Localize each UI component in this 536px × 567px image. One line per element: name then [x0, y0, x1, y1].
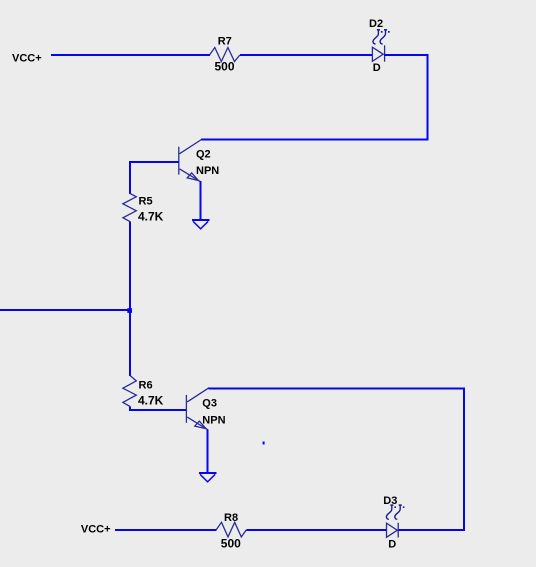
- wire Q2 base to R5: [130, 162, 179, 194]
- resistor R6: [123, 376, 136, 407]
- svg-text:500: 500: [221, 537, 241, 551]
- resistor R8: [216, 522, 246, 537]
- svg-text:D2: D2: [369, 18, 383, 30]
- svg-text:R6: R6: [139, 380, 153, 392]
- wire R5 to junction to R6: [129, 221, 131, 375]
- wire D2 to Q2 collector: [201, 55, 428, 140]
- wire Q3 emitter to ground: [207, 430, 209, 474]
- ground GND1: [192, 220, 209, 229]
- svg-text:4.7K: 4.7K: [138, 210, 164, 224]
- wire VCC+ to R8: [115, 529, 217, 531]
- wire R6 to Q3 base: [130, 406, 187, 410]
- svg-text:500: 500: [215, 60, 235, 74]
- wire R7 to D2: [240, 54, 373, 56]
- svg-text:D: D: [373, 62, 381, 74]
- stray node dot: [263, 442, 265, 445]
- svg-text:NPN: NPN: [202, 415, 225, 427]
- wire Q2 emitter to ground: [200, 181, 202, 220]
- resistor R5: [123, 193, 136, 221]
- svg-text:VCC+: VCC+: [81, 524, 111, 536]
- svg-text:R7: R7: [218, 36, 232, 48]
- wire input net to junction: [0, 309, 130, 311]
- svg-text:R8: R8: [224, 512, 238, 524]
- LED D2: [372, 45, 384, 61]
- LED D2 arrows: [373, 30, 390, 44]
- transistor Q3: [186, 388, 209, 430]
- svg-text:D3: D3: [383, 495, 397, 507]
- svg-text:4.7K: 4.7K: [138, 394, 164, 408]
- resistor R7: [210, 48, 240, 62]
- wire VCC+ to R7: [51, 54, 210, 56]
- LED D3: [387, 523, 399, 538]
- svg-text:R5: R5: [139, 196, 153, 208]
- junction node: [127, 308, 132, 313]
- svg-text:NPN: NPN: [196, 165, 219, 177]
- svg-text:D: D: [388, 538, 396, 550]
- LED D3 arrows: [386, 505, 404, 519]
- wire R8 to D3: [247, 529, 388, 531]
- wire Q3 collector to D3 cathode: [209, 389, 465, 531]
- svg-text:Q2: Q2: [196, 149, 211, 161]
- ground GND2: [199, 473, 216, 482]
- svg-text:VCC+: VCC+: [12, 53, 42, 65]
- svg-text:Q3: Q3: [202, 397, 217, 409]
- transistor Q2: [179, 140, 202, 182]
